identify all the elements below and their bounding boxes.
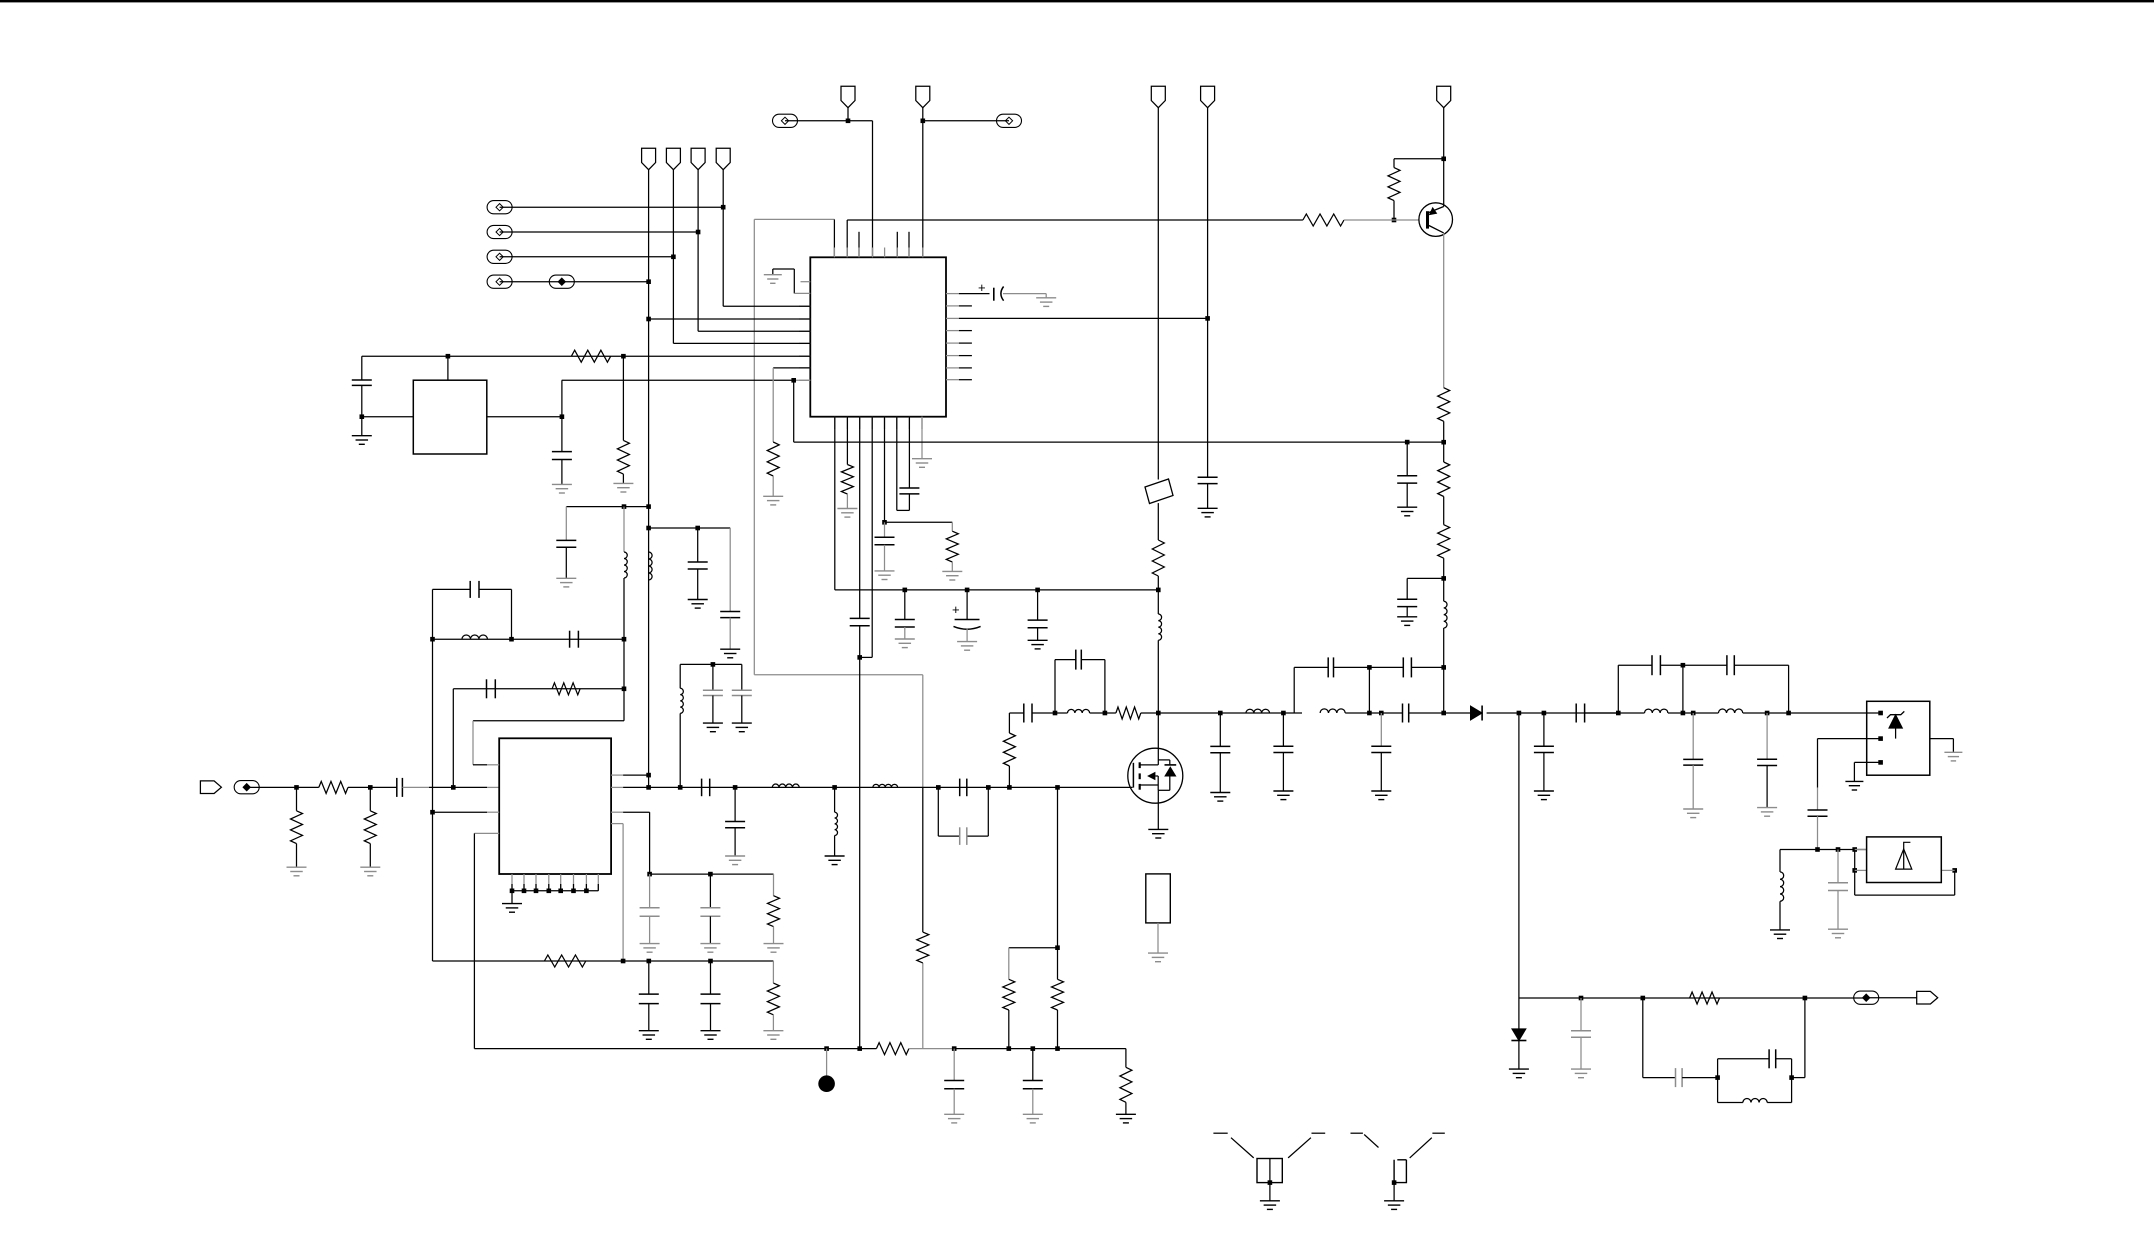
wire P6 down	[922, 108, 924, 258]
inductor L-main4	[1645, 709, 1668, 713]
ground 1125	[1116, 1114, 1136, 1123]
wire D4 gnd lead	[1518, 1041, 1520, 1070]
wire main9	[1585, 712, 1645, 714]
resistor R-773	[767, 442, 779, 476]
node rail1048-826	[824, 1046, 829, 1051]
wire rail442	[794, 441, 1444, 443]
pin stub r293	[946, 293, 959, 295]
wire 967 gnd lead	[966, 629, 968, 642]
wire 1220 gnd lead	[1219, 753, 1221, 793]
wire U2 r812	[611, 811, 650, 813]
wire U2 r775	[611, 774, 649, 776]
node 1158 mainline	[1156, 711, 1161, 716]
wire 712 gnd lead	[712, 696, 714, 724]
wire 710 lead	[709, 874, 711, 908]
wire 735 lead	[734, 787, 736, 821]
diode D4 down	[1511, 1029, 1526, 1041]
node 1057-787	[1055, 785, 1060, 790]
node main-1104	[1103, 711, 1108, 716]
resistor R-main	[1116, 707, 1141, 719]
node 884	[882, 520, 887, 525]
wire 1220 lead	[1219, 713, 1221, 746]
node main-1543	[1542, 711, 1547, 716]
connector flag P2	[666, 148, 680, 170]
resistor R-coll2	[1438, 462, 1450, 497]
wire R370 lead	[369, 787, 371, 810]
pin stub r367	[946, 367, 972, 369]
node r318-P8	[1205, 316, 1210, 321]
capacitor C-566	[556, 540, 576, 547]
node gate-988	[986, 785, 991, 790]
ground 735	[725, 856, 745, 865]
wire pin t2	[846, 220, 848, 257]
wire 909 down	[908, 494, 910, 511]
wire 562 corner up	[561, 380, 563, 416]
wire 1407 gnd lead	[1406, 483, 1408, 507]
capacitor C-1283	[1273, 746, 1293, 752]
wire P9 down	[1443, 108, 1445, 207]
wire 1817 v	[1817, 739, 1819, 810]
wire 474 down	[473, 833, 475, 1048]
U1 bottom pin gray ends	[835, 417, 922, 429]
pin stub r355	[946, 355, 972, 357]
wire 562 down	[561, 417, 563, 452]
wire upper2	[1369, 666, 1443, 668]
wire pin l331	[698, 330, 810, 332]
IC U2	[499, 738, 611, 874]
wire rail590	[835, 589, 1159, 591]
capacitor C-649a	[640, 908, 660, 917]
off-page ref IN (filled)	[234, 781, 259, 794]
wire 1037 lead	[1037, 590, 1039, 620]
capacitor C-712	[703, 690, 723, 695]
connector flag P8	[1201, 86, 1215, 108]
wire 741 corner	[741, 664, 743, 690]
capacitor C-710a	[700, 908, 720, 917]
wire 649a gnd lead	[649, 916, 651, 943]
wire 1581 lead	[1580, 998, 1582, 1031]
wire 361 corner	[361, 356, 363, 380]
wire 1158 down	[1157, 576, 1159, 614]
capacitor C-1407	[1397, 476, 1417, 483]
capacitor C-1381	[1371, 746, 1391, 752]
wire 1207 gnd lead	[1207, 484, 1209, 509]
resistor R-1009	[1003, 733, 1015, 766]
capacitor C-1207	[1198, 477, 1218, 483]
pin stub r379	[946, 379, 972, 381]
resistor R-1057	[1052, 979, 1064, 1010]
wire loop2 left	[1293, 667, 1295, 713]
wire pin b3	[859, 417, 861, 619]
wire pin l368	[773, 367, 810, 369]
wire 1767 gnd lead	[1766, 766, 1768, 808]
wire coll mid3	[1443, 558, 1445, 601]
wire 623 lead	[622, 356, 624, 440]
node coll-LC	[1441, 576, 1446, 581]
wire P2 vertical	[672, 170, 674, 344]
wire rail874	[650, 873, 774, 875]
capacitor C-648b	[639, 994, 659, 1004]
node 859-872	[857, 655, 862, 660]
wire 649 lead	[649, 874, 651, 908]
node main-1682	[1681, 711, 1686, 716]
node 1443-713	[1441, 711, 1446, 716]
node main-1767	[1765, 711, 1770, 716]
resistor R-370	[364, 811, 376, 844]
resistor R-1394	[1388, 168, 1400, 201]
wire main1	[1009, 712, 1023, 714]
ground 370	[360, 867, 380, 876]
resistor R-922	[917, 932, 929, 963]
wire row1	[500, 206, 724, 208]
wire 1032 lead	[1032, 1049, 1034, 1081]
capacitor C-688	[487, 679, 496, 698]
wire D2 pin1	[1867, 711, 1883, 716]
ground D4	[1509, 1069, 1529, 1078]
wire U1 top to Q1 base	[847, 219, 1303, 221]
wire 1767 lead	[1766, 713, 1768, 759]
wire 361 down	[361, 385, 363, 435]
wire row2	[500, 231, 698, 233]
ferrite bead FB1	[1145, 479, 1173, 504]
ground 1037	[1028, 640, 1048, 649]
inductor L-1780	[1780, 872, 1784, 901]
wire 1518 down	[1518, 713, 1520, 998]
pin stub t5 gray	[884, 248, 886, 258]
wire main6	[1345, 712, 1402, 714]
capacitor C-938 series	[960, 779, 967, 797]
capacitor C-562	[552, 452, 572, 460]
ground 566	[556, 578, 576, 587]
node gate-834	[832, 785, 837, 790]
wire P3 vertical	[697, 170, 699, 332]
resistor R-998	[1690, 992, 1720, 1004]
wire main10	[1668, 712, 1719, 714]
capacitor C-main3	[1576, 704, 1584, 723]
node rail961-710	[708, 959, 713, 964]
ground 1381	[1371, 791, 1391, 800]
wire loop3 top	[1618, 664, 1788, 666]
wire D3 loop	[1855, 870, 1955, 895]
capacitor C-loop3a	[1652, 655, 1660, 675]
wire 1407 lead	[1406, 442, 1408, 476]
wire 1407b gnd	[1406, 607, 1408, 617]
resistor R-961	[544, 955, 585, 967]
ground E1	[1260, 1201, 1280, 1210]
node main-1055	[1053, 711, 1058, 716]
wire 1008 corner	[1008, 948, 1010, 980]
wire rail506	[566, 506, 648, 508]
wire P1 vertical	[648, 170, 650, 507]
node main-1693	[1691, 711, 1696, 716]
ground 697	[688, 600, 708, 609]
node main-1220	[1218, 711, 1223, 716]
U2 bottom bus	[510, 874, 599, 893]
U1 top pin gray ends	[834, 248, 922, 258]
off-page ref A3	[487, 250, 512, 263]
resistor R-688	[552, 683, 580, 695]
ground elco r	[1036, 298, 1056, 307]
node rail528-648	[646, 526, 651, 531]
ground 884	[875, 571, 895, 580]
off-page ref B1	[773, 114, 798, 127]
wire rail664	[680, 663, 742, 665]
node rail442-1407	[1405, 440, 1410, 445]
ground 904	[895, 639, 915, 648]
node rail506-648	[646, 504, 651, 509]
resistor R-847	[841, 465, 853, 495]
wire rail720	[473, 720, 624, 722]
inductor L-main2	[1246, 709, 1270, 713]
spark gap E1	[1213, 1133, 1325, 1201]
resistor R-base	[1303, 214, 1344, 226]
wire 1543 gnd lead	[1543, 753, 1545, 792]
wire P1 down2	[648, 507, 650, 788]
wire 1780 gnd lead	[1779, 901, 1781, 930]
ground 1407b	[1397, 617, 1417, 626]
gray wire left vertical	[753, 219, 755, 674]
wire D3 pin2	[1855, 869, 1867, 871]
wire out flag	[1866, 997, 1917, 999]
inductor L-main3	[1320, 709, 1345, 713]
wire R-1394 bot	[1393, 201, 1395, 220]
node 1443-667	[1441, 665, 1446, 670]
ground 1220	[1210, 793, 1230, 802]
wire 1283 lead	[1282, 713, 1284, 746]
wire 1057 lead1	[1057, 948, 1059, 980]
node LC-A	[1715, 1075, 1720, 1080]
IC U1	[810, 257, 946, 416]
wire main4	[1141, 712, 1159, 714]
wire pin t1	[833, 219, 835, 257]
wire loop2 top	[1294, 666, 1369, 668]
wire 954 lead	[953, 1049, 955, 1081]
elco C-967	[952, 602, 981, 629]
wire main8	[1487, 712, 1619, 714]
wire 649 down	[649, 812, 651, 874]
wire X1 top pin	[447, 356, 449, 380]
ground 712	[703, 723, 723, 732]
wire loop589 right	[511, 589, 513, 639]
ground 1283	[1273, 791, 1293, 800]
ground 649a	[640, 944, 660, 953]
capacitor C-1407b	[1397, 599, 1417, 606]
capacitor C-1817	[1808, 810, 1828, 816]
capacitor C-639	[570, 631, 579, 648]
node 648-775	[646, 773, 651, 778]
ground 710a	[700, 944, 720, 953]
wire 1057 lead2	[1057, 1010, 1059, 1049]
ground 1543	[1534, 791, 1554, 800]
wire main11	[1743, 712, 1867, 714]
wire 1780 corner	[1779, 850, 1781, 872]
wire 1581 gnd lead	[1580, 1037, 1582, 1069]
node row2/P3	[696, 230, 701, 235]
capacitor C-main2	[1403, 704, 1409, 723]
wire 872 vertical	[872, 121, 874, 257]
cap bypass loop	[938, 787, 988, 845]
node rail590-904	[903, 588, 908, 593]
node row4/P1	[646, 279, 651, 284]
wire 712 lead	[712, 664, 714, 690]
wire 1443 down	[1443, 628, 1445, 713]
ground ant	[1148, 953, 1168, 962]
node rail1048-1057	[1055, 1046, 1060, 1051]
wire 1125 corner	[1125, 1049, 1127, 1068]
wire pin l343	[673, 342, 810, 344]
resistor R-coll3	[1438, 525, 1450, 559]
wire main5	[1158, 712, 1302, 714]
wire 562 gnd lead	[561, 460, 563, 485]
node bus849-1854	[1852, 847, 1857, 852]
node 1854-870	[1852, 868, 1857, 873]
wire rail1048b gray	[909, 1048, 954, 1050]
pin stub t7	[908, 232, 910, 257]
ground 710b	[701, 1031, 721, 1040]
capacitor C-loop3b	[1727, 655, 1734, 675]
capacitor C-1693	[1683, 759, 1703, 765]
wire 473 down	[472, 721, 474, 765]
node rail1048-954	[952, 1046, 957, 1051]
output connector J-OUT	[1917, 991, 1938, 1004]
node P9-R	[1441, 157, 1446, 162]
input connector J-IN	[200, 781, 221, 794]
node in-R1	[294, 785, 299, 790]
node 680-787	[678, 785, 683, 790]
wire in1	[247, 786, 319, 788]
node main-1381	[1379, 711, 1384, 716]
wire 1009 v	[1008, 713, 1010, 733]
capacitor C-loop2	[1328, 657, 1333, 677]
connector flag P1	[642, 148, 656, 170]
wire P5 down	[847, 108, 849, 121]
wire 1693 gnd lead	[1692, 765, 1694, 809]
node in-453	[451, 785, 456, 790]
node rail874-649	[647, 872, 652, 877]
wire 954 gnd lead	[953, 1089, 955, 1115]
wire pin b6	[897, 417, 910, 511]
wire D2 right	[1930, 739, 1954, 753]
wire 710a gnd lead	[709, 916, 711, 943]
wire 884 gnd lead	[884, 545, 886, 571]
wire coll mid	[1443, 421, 1445, 462]
wire main7	[1409, 712, 1471, 714]
ground 834b	[825, 856, 845, 865]
wire 773 corner	[773, 874, 775, 896]
node rail639-432	[430, 637, 435, 642]
wire LC tap	[1407, 578, 1444, 599]
ground M1	[1148, 829, 1168, 838]
wire 453 down	[452, 689, 454, 788]
capacitor C-1767	[1757, 759, 1777, 765]
capacitor C-in	[397, 778, 403, 797]
wire 1642 v	[1643, 998, 1676, 1078]
wire 859 down	[859, 626, 861, 1049]
wire 1032 gnd lead	[1032, 1089, 1034, 1115]
pin b2 lead	[846, 417, 848, 465]
ground 954	[944, 1114, 964, 1123]
wire 624 lead	[623, 507, 625, 552]
node rail874-710	[708, 872, 713, 877]
elco C+ right	[978, 280, 1004, 301]
wire 904 lead	[904, 590, 906, 620]
node main-1518	[1517, 711, 1522, 716]
wire base lead	[1344, 219, 1419, 221]
resistor R-in	[319, 781, 348, 793]
TVS symbol D2	[1887, 711, 1904, 738]
ground 1581	[1571, 1069, 1591, 1078]
TVS box D2	[1867, 701, 1930, 775]
wire U2 l833	[474, 832, 499, 834]
wire bead down	[1157, 503, 1159, 540]
wire B1-P5	[785, 120, 848, 122]
capacitor C-904	[895, 620, 915, 628]
resistor R-623	[617, 440, 629, 474]
wire D2 pin2	[1818, 736, 1883, 741]
ground 562	[552, 484, 572, 493]
ground 730	[720, 649, 740, 658]
connector flag P5	[841, 86, 855, 108]
wire 847 gnd lead	[846, 494, 848, 509]
capacitor C-1037	[1028, 620, 1048, 628]
capacitor C-697	[688, 562, 708, 569]
wire 773c gnd lead	[772, 1015, 774, 1031]
wire 296 gnd lead	[296, 844, 298, 868]
wire row3	[500, 256, 674, 258]
capacitor C-702 series	[702, 779, 710, 797]
wire 710b lead	[710, 961, 712, 994]
wire D3 pin1	[1855, 849, 1867, 851]
node rail590-967	[965, 588, 970, 593]
wire 967 lead	[966, 590, 968, 620]
wire 1381 lead	[1380, 713, 1382, 746]
off-page ref A4	[487, 275, 512, 288]
wire loop1 left	[1054, 660, 1056, 713]
connector flag P4	[716, 148, 730, 170]
node rail442	[1441, 440, 1446, 445]
node gate-938	[936, 785, 941, 790]
capacitor C-1066	[1676, 1068, 1683, 1087]
node X1 right	[560, 414, 565, 419]
wire U2 r823	[611, 823, 623, 825]
resistor R-row356	[571, 350, 610, 362]
wire 1838 gnd lead	[1837, 891, 1839, 930]
wire rail528	[649, 527, 731, 529]
wire ball lead	[826, 1049, 828, 1076]
wire pin l319	[649, 318, 811, 320]
wire gnd-pin293	[773, 269, 811, 293]
node Q1 base div	[1392, 218, 1397, 223]
inductor L-gate2	[873, 784, 898, 787]
wire LC-B out	[1792, 998, 1805, 1078]
LC loop	[1718, 1049, 1792, 1102]
node l380	[791, 378, 796, 383]
wire 623 gnd lead	[622, 474, 624, 483]
node P5	[846, 119, 851, 124]
wire 432 down	[432, 639, 434, 961]
node P6	[921, 119, 926, 124]
ground 1032	[1023, 1114, 1043, 1123]
capacitor C-909	[899, 488, 919, 494]
node 432-812	[430, 810, 435, 815]
inductor L-624	[624, 552, 627, 578]
capacitor C-859	[850, 618, 870, 625]
resistor R-1048	[876, 1043, 909, 1055]
pin stub t6	[896, 232, 898, 257]
node 361	[360, 414, 365, 419]
ground 296	[287, 867, 307, 876]
test point ball	[818, 1075, 835, 1092]
